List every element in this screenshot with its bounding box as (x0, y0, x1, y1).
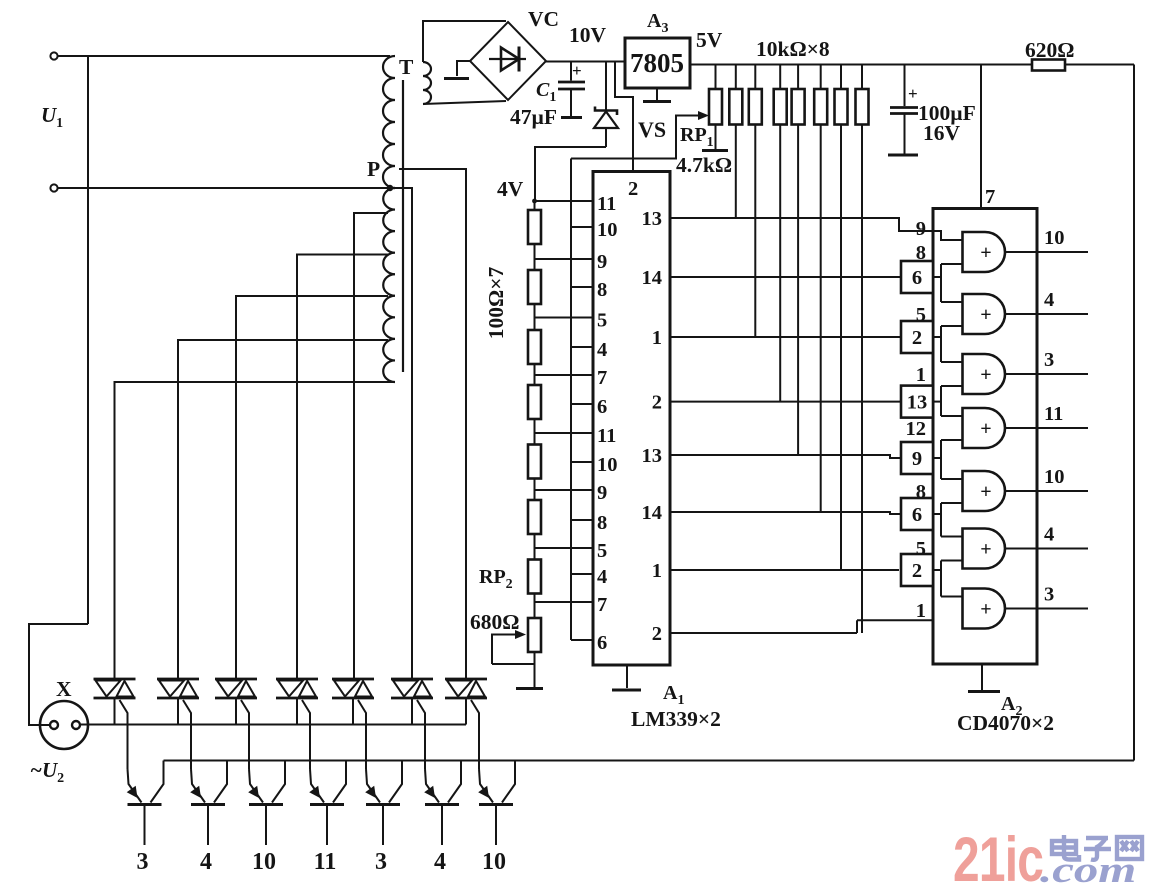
diode inside bridge (489, 58, 526, 60)
wire A1 left pin 8 row y287 (571, 286, 593, 288)
svg-text:620Ω: 620Ω (1025, 38, 1074, 62)
transistor V4 (310, 769, 324, 803)
wire 10V rail bridge to 7805 (546, 61, 625, 63)
wire row3 out1 (670, 336, 901, 338)
wire gate bus (81, 724, 466, 726)
wire tap1 to triac 5 column (354, 213, 388, 678)
resistor R 100d (528, 385, 541, 419)
wire triac 2 to gate bus (177, 698, 179, 725)
svg-text:4: 4 (434, 849, 446, 875)
wire 5V rail (690, 64, 1032, 66)
wire row5 out13b (670, 455, 901, 458)
svg-text:2: 2 (652, 392, 662, 414)
svg-text:4: 4 (597, 566, 607, 588)
XOR gate 2 (963, 294, 1006, 334)
pin box A2 6 (901, 498, 933, 530)
svg-text:1: 1 (916, 364, 926, 386)
wire gate 3 output (1005, 373, 1088, 375)
triac Q7 (445, 678, 487, 681)
wire pull-up 4 (797, 125, 799, 456)
triac Q3 (215, 678, 257, 681)
wire triac 2 gate (183, 700, 191, 769)
bridge rectifier VC diamond (470, 22, 546, 100)
wire triac 1 to gate bus (114, 698, 116, 725)
svg-text:14: 14 (642, 267, 663, 289)
svg-text:9: 9 (912, 448, 922, 470)
wire A1 left pin 10 row y227 (571, 226, 593, 228)
wire A1 left pin 6 row y404 (571, 403, 593, 405)
ground of 7805 (656, 88, 658, 100)
wire A1 left pin 5 row y317.5 (535, 317, 594, 319)
XOR gate 6 (963, 529, 1006, 569)
wire tap2 to triac 4 column (297, 255, 388, 679)
logo dianziwang (1052, 835, 1142, 860)
svg-text:10: 10 (597, 454, 618, 476)
resistor RP2 (528, 560, 541, 594)
wire pull-up 7 (861, 125, 863, 634)
svg-text:4V: 4V (497, 177, 524, 201)
wire row4 out2 (670, 401, 901, 403)
transistor V3 (249, 769, 263, 803)
svg-text:9: 9 (597, 482, 607, 504)
svg-text:5: 5 (916, 538, 926, 560)
triac Q2 (157, 678, 199, 681)
logo .com (1040, 850, 1136, 884)
wire base lead 1 (144, 806, 146, 845)
svg-text:7: 7 (985, 186, 995, 208)
op-amp U A1 LM339x2 box (593, 172, 670, 666)
wire 5V to right edge (1065, 64, 1134, 66)
RP1 wiper arrow and VS wire (571, 116, 702, 159)
wire row8 out2b (670, 632, 857, 634)
wire triac 5 to gate bus (352, 698, 354, 725)
svg-text:21ic: 21ic (953, 824, 1043, 884)
wire 10V to A1 pin2 (615, 62, 633, 172)
svg-text:+: + (980, 599, 991, 621)
wire gate 2 output (1005, 313, 1088, 315)
transistor V5 (366, 769, 380, 803)
wire gate 1 output (1005, 251, 1088, 253)
wire A1 left pin 4 row y574 (571, 573, 593, 575)
svg-text:3: 3 (1044, 349, 1054, 371)
svg-text:6: 6 (597, 396, 607, 418)
svg-text:+: + (980, 242, 991, 264)
svg-text:10: 10 (1044, 227, 1065, 249)
svg-text:2: 2 (652, 623, 662, 645)
wire base lead 3 (265, 806, 267, 845)
zener diode (605, 62, 607, 111)
resistor R 100c (528, 330, 541, 364)
transistor V6 (425, 769, 439, 803)
svg-text:+: + (908, 84, 918, 103)
wire A1 left pin 4 row y347 (571, 346, 593, 348)
logo 21ic (953, 824, 1043, 884)
wire 4V chain spine (534, 201, 536, 688)
svg-text:8: 8 (916, 242, 926, 264)
wire U1 top to transformer primary (58, 55, 390, 57)
XOR-gate IC A2 CD4070x2 box (933, 209, 1037, 665)
resistor R 100e (528, 445, 541, 479)
svg-text:VC: VC (528, 7, 559, 31)
wire left branch down from top wire (87, 56, 89, 624)
XOR gate 1 (963, 232, 1006, 272)
wire triac 6 to gate bus (411, 698, 413, 725)
svg-text:LM339×2: LM339×2 (631, 707, 721, 731)
wire pull-up 6 (840, 125, 842, 571)
wire triac 3 gate (241, 700, 249, 769)
resistor R 680 (528, 618, 541, 652)
resistor RP1 4.7k (715, 65, 717, 90)
svg-text:+: + (980, 418, 991, 440)
svg-text:4.7kΩ: 4.7kΩ (676, 153, 732, 177)
svg-text:680Ω: 680Ω (470, 610, 519, 634)
wire A1 left pin 6 row y640 (571, 639, 593, 641)
svg-text:9: 9 (597, 251, 607, 273)
svg-text:4: 4 (597, 339, 607, 361)
wire A1 left pin 9 row y490 (535, 489, 594, 491)
svg-text:11: 11 (1044, 403, 1063, 425)
wire A1 left pin 11 row y201 (535, 200, 594, 202)
svg-text:+: + (980, 364, 991, 386)
svg-text:4: 4 (1044, 524, 1054, 546)
svg-text:+: + (980, 304, 991, 326)
svg-text:11: 11 (314, 849, 337, 875)
wire A1 left pin 9 row y259 (535, 258, 594, 260)
svg-text:8: 8 (597, 279, 607, 301)
svg-text:VS: VS (638, 117, 666, 142)
svg-text:+: + (980, 481, 991, 503)
socket X (40, 701, 88, 749)
wire row7 out1b (670, 569, 899, 571)
svg-text:P: P (367, 157, 380, 181)
svg-text:6: 6 (597, 632, 607, 654)
wire A2 inner net 3 (933, 336, 941, 338)
wire base lead 2 (207, 806, 209, 845)
wire A2 inner net 2 (933, 276, 941, 278)
resistor R 10k f (840, 65, 842, 90)
svg-text:3: 3 (137, 849, 149, 875)
triac Q1 (94, 678, 136, 681)
wire collector bus (164, 760, 1135, 762)
capacitor C1 47uF (570, 62, 572, 81)
ground of A1 (626, 665, 628, 688)
wire triac 6 gate (417, 700, 425, 769)
wire row2 out14 (670, 276, 901, 278)
svg-text:10kΩ×8: 10kΩ×8 (756, 37, 830, 61)
ground of A2 (981, 664, 983, 690)
XOR gate 3 (963, 354, 1006, 394)
svg-text:4: 4 (200, 849, 212, 875)
wire A2 inner net 5 (933, 457, 941, 459)
svg-text:1: 1 (652, 327, 662, 349)
resistor 620 ohm (1032, 60, 1065, 71)
wire right edge down (1133, 65, 1135, 761)
wire triac 1 gate (120, 700, 128, 769)
svg-text:2: 2 (912, 560, 922, 582)
wire base lead 4 (326, 806, 328, 845)
svg-text:+: + (572, 61, 582, 80)
svg-text:+: + (980, 539, 991, 561)
pin box A2 9 (901, 442, 933, 474)
wire base lead 5 (382, 806, 384, 845)
svg-text:5: 5 (597, 540, 607, 562)
wire A2 inner net 6 (933, 513, 941, 515)
wire tap junction to triac 6 column (390, 188, 412, 678)
transistor V2 (191, 769, 205, 803)
resistor R 10k e (820, 65, 822, 90)
wire pull-up 1 (735, 125, 737, 219)
transformer core (402, 80, 404, 372)
svg-text:10: 10 (252, 849, 276, 875)
svg-text:4: 4 (1044, 289, 1054, 311)
ground of chain (516, 687, 543, 690)
wire pull-up 2 (754, 125, 756, 338)
wire A1 left pin 7 row y602 (535, 601, 594, 603)
resistor R 100a (528, 210, 541, 244)
svg-text:2: 2 (628, 178, 638, 200)
svg-text:8: 8 (916, 481, 926, 503)
svg-text:T: T (399, 55, 414, 79)
wire zener to 4V node (535, 147, 606, 201)
wire gate 5 output (1005, 490, 1088, 492)
svg-text:1: 1 (652, 560, 662, 582)
terminal U1 bottom (50, 184, 57, 191)
wire triac 4 to gate bus (296, 698, 298, 725)
svg-text:12: 12 (906, 418, 927, 440)
capacitor 100uF 16V (904, 65, 906, 107)
svg-text:3: 3 (375, 849, 387, 875)
svg-text:11: 11 (597, 193, 616, 215)
resistor R 100b (528, 270, 541, 304)
wire base lead 7 (495, 806, 497, 845)
svg-text:14: 14 (642, 502, 663, 524)
svg-text:8: 8 (597, 512, 607, 534)
XOR gate 5 (963, 471, 1006, 511)
pin 7 top (980, 65, 982, 209)
pin box A2 2 (901, 554, 933, 586)
wire triac 7 to gate bus (465, 698, 467, 725)
wire VS rail (570, 159, 572, 641)
wire gate 7 output (1005, 608, 1088, 610)
svg-text:5: 5 (597, 310, 607, 332)
pin box A2 2 (901, 321, 933, 353)
svg-text:6: 6 (912, 504, 922, 526)
wire A1 left pin 10 row y462 (571, 461, 593, 463)
svg-text:47µF: 47µF (510, 105, 557, 129)
wire tap3 to triac 3 column (236, 296, 388, 678)
svg-text:6: 6 (912, 267, 922, 289)
svg-text:1: 1 (916, 600, 926, 622)
svg-text:13: 13 (642, 208, 663, 230)
resistor R 10k c (779, 65, 781, 90)
wire pull-up 3 (779, 125, 781, 402)
transformer T primary upper winding (383, 56, 395, 188)
wire A1 left pin 8 row y520 (571, 519, 593, 521)
wire secondary bottom to bridge (423, 101, 506, 104)
regulator A3 7805 (625, 38, 690, 88)
resistor R 10k a (735, 65, 737, 90)
resistor R 100f (528, 500, 541, 534)
wire tap4 to triac 2 column (178, 340, 388, 678)
transistor V1 (128, 769, 142, 803)
transformer T primary lower winding (383, 188, 395, 382)
wire triac 3 to gate bus (235, 698, 237, 725)
XOR gate 4 (963, 408, 1006, 448)
transistor V7 (479, 769, 493, 803)
wire A2 inner net 4 (933, 401, 941, 403)
wire gate 6 output (1005, 548, 1088, 550)
wire A1 left pin 5 row y548 (535, 547, 594, 549)
triac Q5 (332, 678, 374, 681)
resistor R 10k d (797, 65, 799, 90)
svg-text:2: 2 (912, 327, 922, 349)
resistor R 10k b (754, 65, 756, 90)
svg-text:10: 10 (1044, 466, 1065, 488)
pin box A2 6 (901, 261, 933, 293)
wire row6 out14b (670, 512, 901, 514)
RP1 ground (715, 125, 717, 150)
svg-text:5V: 5V (696, 28, 723, 52)
svg-text:3: 3 (1044, 584, 1054, 606)
svg-text:X: X (56, 677, 72, 701)
svg-text:CD4070×2: CD4070×2 (957, 711, 1054, 735)
wire pull-up 5 (820, 125, 822, 513)
wire gate 4 output (1005, 427, 1088, 429)
svg-text:5: 5 (916, 304, 926, 326)
wiper of 680 pot (492, 635, 518, 665)
XOR gate 7 (963, 589, 1006, 629)
wire triac 4 gate (302, 700, 310, 769)
svg-text:9: 9 (916, 218, 926, 240)
svg-text:11: 11 (597, 425, 616, 447)
wire secondary top to bridge (423, 21, 506, 62)
wire step to socket (29, 624, 88, 725)
transformer secondary winding (423, 62, 431, 104)
pin box A2 13 (901, 386, 933, 418)
svg-text:10V: 10V (569, 23, 607, 47)
triac Q6 (391, 678, 433, 681)
wire winding bottom to triac 1 column (115, 382, 396, 678)
wire A1 left pin 7 row y375 (535, 374, 594, 376)
wire A2 inner net 7 (933, 569, 941, 571)
svg-text:10: 10 (597, 219, 618, 241)
wire A1 left pin 11 row y433 (535, 432, 594, 434)
svg-text:13: 13 (907, 392, 928, 414)
wire triac 7 gate (471, 700, 479, 769)
wire U1 bottom to primary tap junction (58, 187, 390, 189)
node junction at winding tap (387, 185, 393, 191)
svg-text:7: 7 (597, 594, 607, 616)
wire base lead 6 (441, 806, 443, 845)
resistor R 10k g (861, 65, 863, 90)
ground at bridge left vertex (457, 61, 470, 76)
svg-text:13: 13 (642, 445, 663, 467)
svg-text:100Ω×7: 100Ω×7 (484, 267, 508, 340)
terminal U1 top (50, 52, 57, 59)
wire A2 inner net 1 (933, 231, 963, 240)
triac Q4 (276, 678, 318, 681)
wire row1 out13 (670, 218, 933, 231)
wire triac 5 gate (358, 700, 366, 769)
svg-text:10: 10 (482, 849, 506, 875)
svg-text:7: 7 (597, 367, 607, 389)
wire tap P to triac 7 column (399, 169, 466, 678)
svg-text:16V: 16V (923, 121, 961, 145)
svg-text:7805: 7805 (630, 48, 684, 78)
